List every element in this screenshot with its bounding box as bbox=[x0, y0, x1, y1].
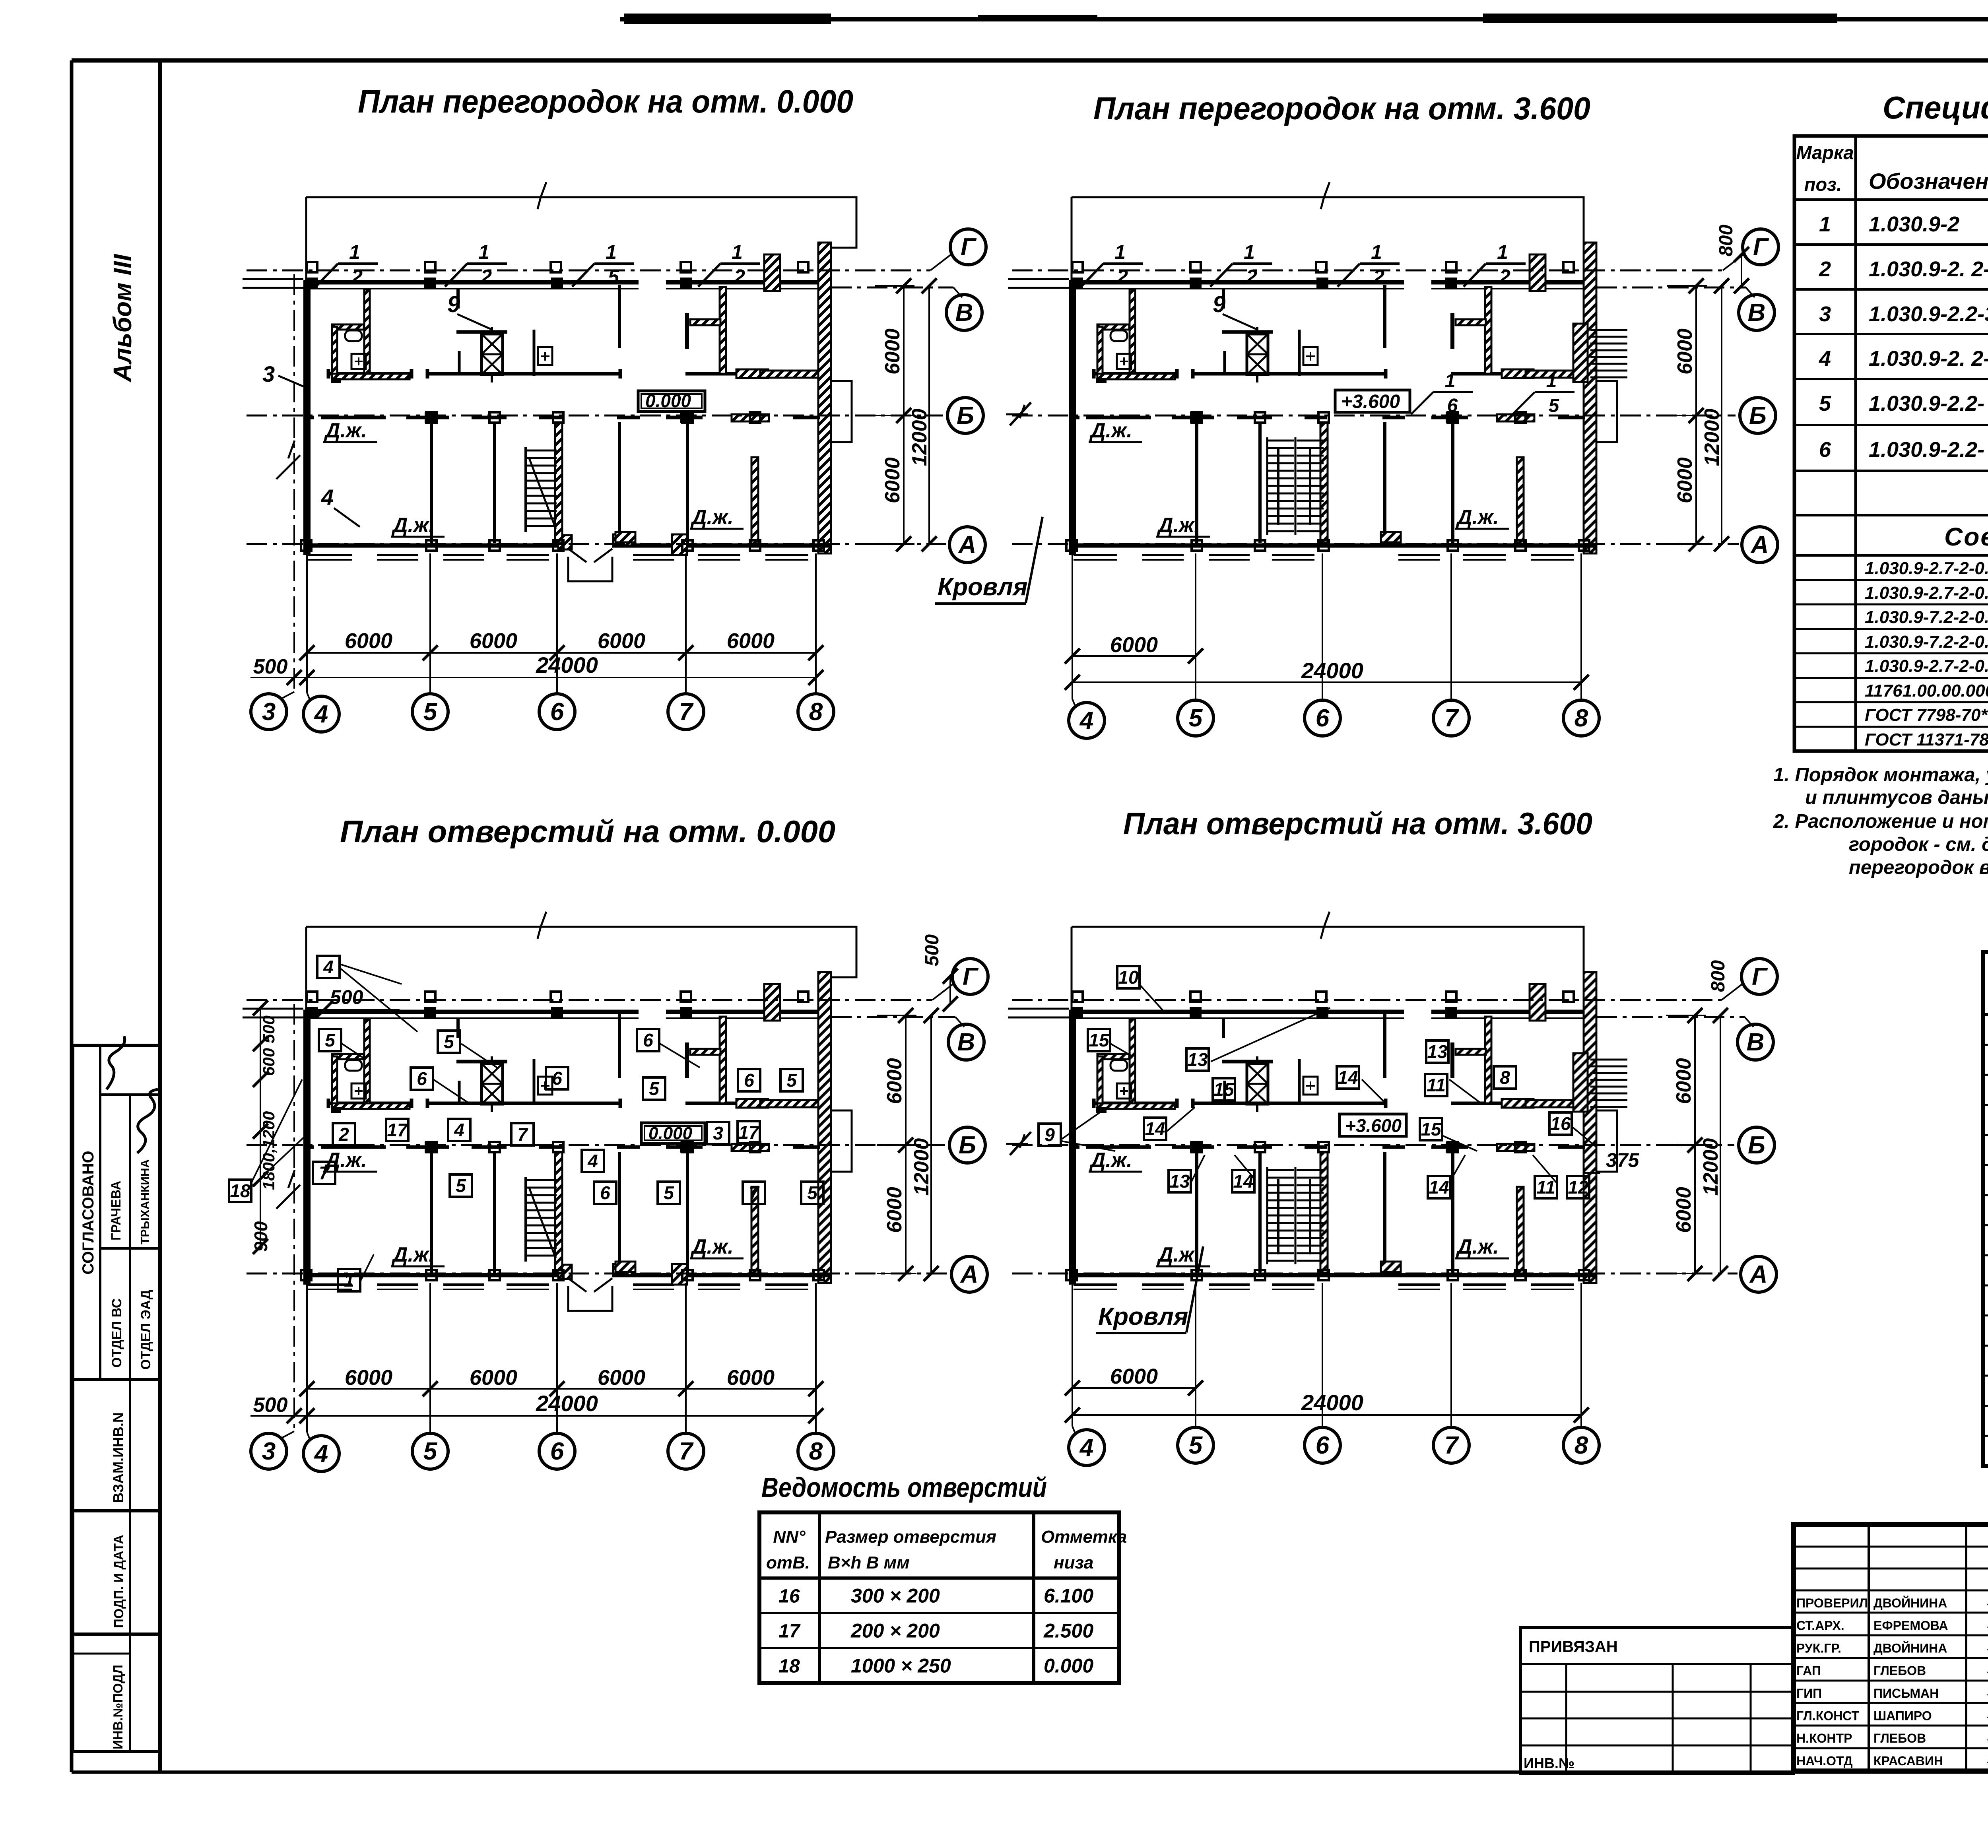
svg-text:А: А bbox=[1749, 1261, 1768, 1288]
svg-text:Д.ж.: Д.ж. bbox=[324, 419, 367, 442]
svg-text:Альбом III: Альбом III bbox=[108, 254, 137, 382]
svg-text:Ведомость отверстий: Ведомость отверстий bbox=[761, 1472, 1047, 1503]
svg-text:А: А bbox=[958, 531, 977, 559]
svg-text:ОТДЕЛ ВС: ОТДЕЛ ВС bbox=[109, 1299, 124, 1368]
plan p1 label 4 bbox=[321, 485, 360, 527]
svg-text:7: 7 bbox=[679, 698, 694, 726]
plan p2 corridor wall axis B(lower) bbox=[1069, 414, 1585, 421]
notes bbox=[1773, 764, 1988, 878]
svg-text:В×h В мм: В×h В мм bbox=[828, 1553, 910, 1572]
plan p2 upper right stair bbox=[1573, 324, 1627, 382]
svg-text:КРАСАВИН: КРАСАВИН bbox=[1873, 1754, 1943, 1768]
svg-text:3: 3 bbox=[262, 698, 276, 726]
svg-text:11761.00.00.000: 11761.00.00.000 bbox=[1865, 681, 1988, 701]
svg-text:4: 4 bbox=[323, 957, 334, 977]
svg-text:Размер отверстия: Размер отверстия bbox=[825, 1527, 996, 1547]
svg-text:ДВОЙНИНА: ДВОЙНИНА bbox=[1873, 1641, 1947, 1655]
title block bbox=[1794, 1524, 1988, 1771]
svg-text:1: 1 bbox=[344, 1270, 354, 1291]
svg-text:6000: 6000 bbox=[345, 629, 392, 653]
svg-text:1000 × 250: 1000 × 250 bbox=[851, 1655, 951, 1677]
svg-text:6000: 6000 bbox=[881, 457, 904, 503]
svg-text:3: 3 bbox=[262, 1438, 276, 1465]
plan p4 pylon bbox=[1530, 984, 1545, 1021]
svg-text:1.030.9-2.2- 3.0: 1.030.9-2.2- 3.0 bbox=[1869, 392, 1988, 415]
privyazan box bbox=[1520, 1627, 1794, 1773]
svg-text:поз.: поз. bbox=[1804, 174, 1842, 195]
svg-text:отВ.: отВ. bbox=[766, 1553, 810, 1572]
plan p3 canopy outline bbox=[306, 912, 856, 977]
svg-text:5: 5 bbox=[1189, 1432, 1203, 1459]
svg-text:1: 1 bbox=[1114, 241, 1126, 263]
svg-text:4: 4 bbox=[314, 1440, 328, 1468]
svg-text:1.030.9-2.7-2-0.21.0: 1.030.9-2.7-2-0.21.0 bbox=[1865, 656, 1988, 676]
svg-text:5: 5 bbox=[444, 1031, 454, 1052]
plan p2 upper partitions bbox=[1299, 285, 1491, 376]
svg-text:План отверстий на отм. 3.60: План отверстий на отм. 3.600 bbox=[1123, 806, 1592, 841]
svg-text:План отверстий на отм. 0.00: План отверстий на отм. 0.000 bbox=[340, 814, 835, 849]
title plan openings 0.000 bbox=[340, 814, 835, 849]
svg-text:14: 14 bbox=[1145, 1118, 1165, 1139]
svg-text:17: 17 bbox=[738, 1122, 760, 1143]
plan p4 upper right stair bbox=[1573, 1053, 1627, 1112]
svg-text:ВЗАМ.ИНВ.N: ВЗАМ.ИНВ.N bbox=[110, 1412, 126, 1503]
svg-text:6.100: 6.100 bbox=[1044, 1585, 1093, 1607]
svg-text:500: 500 bbox=[922, 934, 943, 966]
sidebar album label bbox=[108, 254, 137, 382]
plan p1 corridor wall axis B(lower) bbox=[303, 414, 820, 421]
plan p1 right dimension lines bbox=[875, 278, 937, 551]
plan p3 axis B bbox=[247, 1127, 985, 1163]
svg-text:375: 375 bbox=[1606, 1149, 1640, 1171]
svg-text:Д.ж.: Д.ж. bbox=[324, 1149, 367, 1172]
svg-text:ГАП: ГАП bbox=[1796, 1664, 1821, 1678]
plan p1 D.zh. labels bbox=[323, 419, 744, 537]
plan p4 axis G bbox=[1012, 959, 1777, 1002]
plan p2 right wall bbox=[1584, 243, 1596, 553]
svg-text:6000: 6000 bbox=[883, 1058, 906, 1104]
svg-text:17: 17 bbox=[779, 1621, 801, 1642]
plan p3 right dimension lines bbox=[877, 1008, 939, 1281]
svg-text:Обозначение: Обозначение bbox=[1869, 169, 1988, 194]
plan p3 axis V bbox=[831, 1017, 984, 1060]
plan p2 axis A bbox=[1012, 527, 1778, 563]
plan p2 elevator shaft bbox=[1222, 289, 1273, 382]
svg-text:5: 5 bbox=[1819, 392, 1831, 415]
svg-text:НАЧ.ОТД: НАЧ.ОТД bbox=[1796, 1754, 1853, 1768]
svg-text:Д.ж.: Д.ж. bbox=[1456, 1235, 1499, 1258]
plan p4 axis B bbox=[1012, 1127, 1774, 1163]
svg-text:3: 3 bbox=[713, 1123, 723, 1143]
plan p4 left wall bbox=[1006, 927, 1076, 1285]
svg-text:8: 8 bbox=[1574, 705, 1588, 732]
svg-text:Н.КОНТР: Н.КОНТР bbox=[1796, 1731, 1852, 1745]
svg-text:низа: низа bbox=[1054, 1553, 1093, 1572]
svg-text:24000: 24000 bbox=[1301, 1390, 1363, 1415]
plan p2 bottom wall axis A bbox=[1069, 545, 1596, 560]
svg-text:15: 15 bbox=[1421, 1119, 1442, 1139]
svg-text:5: 5 bbox=[325, 1030, 336, 1050]
plan p3 right wall bbox=[818, 972, 831, 1283]
svg-text:9: 9 bbox=[1213, 291, 1225, 317]
svg-text:1.030.9-2: 1.030.9-2 bbox=[1869, 212, 1959, 236]
plan p3 column circles bbox=[251, 1433, 834, 1471]
sidebar ВЗАМ.ИНВ. box bbox=[73, 1380, 160, 1511]
svg-text:17: 17 bbox=[387, 1120, 408, 1140]
svg-text:Б: Б bbox=[1749, 402, 1767, 429]
svg-text:5: 5 bbox=[608, 266, 619, 288]
svg-text:4: 4 bbox=[1079, 1434, 1093, 1462]
svg-text:5: 5 bbox=[649, 1078, 660, 1099]
plan p2 axis G bbox=[1012, 229, 1778, 272]
svg-text:16: 16 bbox=[779, 1586, 800, 1607]
plan p1 axis V bbox=[831, 287, 982, 330]
svg-text:1.030.9-7.2-2-0.22.0-05: 1.030.9-7.2-2-0.22.0-05 bbox=[1865, 608, 1988, 627]
plan p2 bottom dimension lines bbox=[1065, 553, 1589, 707]
plan p4 top wall axis B bbox=[1069, 1012, 1585, 1018]
plan p4 stair bbox=[1267, 1167, 1324, 1264]
svg-text:ГИП: ГИП bbox=[1796, 1686, 1822, 1700]
plan p3 bottom dimension lines bbox=[250, 1004, 823, 1440]
svg-text:ГРАЧЕВА: ГРАЧЕВА bbox=[109, 1181, 123, 1240]
plan p4 right dimension lines bbox=[1666, 1008, 1728, 1281]
svg-text:12000: 12000 bbox=[1701, 409, 1724, 466]
svg-text:1: 1 bbox=[606, 241, 617, 263]
plan p1 elevator shaft bbox=[456, 289, 507, 382]
plan p3 top wall axis B bbox=[303, 1012, 820, 1018]
svg-text:5: 5 bbox=[456, 1175, 466, 1196]
svg-text:800: 800 bbox=[1708, 960, 1729, 992]
plan p1 label 9 elevator bbox=[447, 291, 491, 329]
svg-text:ПОДП. И ДАТА: ПОДП. И ДАТА bbox=[111, 1535, 126, 1628]
svg-text:6000: 6000 bbox=[727, 629, 775, 653]
svg-text:ИНВ.№ПОДЛ: ИНВ.№ПОДЛ bbox=[111, 1665, 125, 1749]
svg-text:1.030.9-7.2-2-0.35.0-01: 1.030.9-7.2-2-0.35.0-01 bbox=[1865, 632, 1988, 652]
plan p3 level mark 0.000 bbox=[641, 1123, 705, 1143]
svg-text:13: 13 bbox=[1187, 1049, 1208, 1070]
svg-text:2: 2 bbox=[1246, 266, 1257, 288]
svg-text:14: 14 bbox=[1338, 1067, 1358, 1088]
plan p3 left wall bbox=[243, 927, 311, 1285]
svg-text:12: 12 bbox=[1568, 1177, 1588, 1198]
svg-text:9: 9 bbox=[1044, 1124, 1055, 1145]
plan p3 wall squares bbox=[306, 1007, 692, 1153]
vedomost otverstiy table small bbox=[759, 1472, 1127, 1683]
svg-text:1.030.9-2.2-3.0: 1.030.9-2.2-3.0 bbox=[1869, 302, 1988, 326]
svg-text:24000: 24000 bbox=[536, 652, 598, 677]
plan p3 D.zh. labels bbox=[323, 1149, 744, 1266]
plan p4 bottom wall axis A bbox=[1069, 1275, 1596, 1289]
svg-text:12000: 12000 bbox=[908, 409, 931, 466]
plan p1 left wall bbox=[243, 197, 311, 555]
svg-text:8: 8 bbox=[809, 1438, 823, 1465]
plan p2 lower partitions bbox=[1066, 412, 1589, 551]
plan p4 opening marks bbox=[1039, 966, 1596, 1198]
plan p1 right side porch bbox=[832, 381, 852, 442]
svg-text:4: 4 bbox=[1819, 347, 1831, 371]
plan p3 lower partitions bbox=[301, 1142, 824, 1280]
svg-text:ГОСТ 11371-78: ГОСТ 11371-78 bbox=[1865, 730, 1988, 749]
plan p1 lower partitions bbox=[301, 412, 824, 551]
svg-text:Д.ж.: Д.ж. bbox=[391, 1243, 435, 1266]
title specification bbox=[1883, 90, 1988, 125]
plan p1 wall squares bbox=[306, 278, 692, 423]
svg-text:800: 800 bbox=[1716, 225, 1737, 256]
svg-text:6: 6 bbox=[1447, 395, 1458, 416]
plan p4 right wall bbox=[1584, 972, 1596, 1283]
svg-text:6000: 6000 bbox=[883, 1187, 906, 1233]
svg-text:13: 13 bbox=[1427, 1041, 1448, 1062]
svg-text:2: 2 bbox=[338, 1124, 349, 1145]
svg-text:6: 6 bbox=[550, 1438, 564, 1465]
svg-text:Д.ж.: Д.ж. bbox=[1456, 506, 1499, 529]
svg-text:5: 5 bbox=[807, 1182, 818, 1203]
plan p1 bathroom bbox=[331, 289, 410, 383]
scan edge streak bbox=[620, 14, 1988, 24]
svg-text:Б: Б bbox=[959, 1132, 976, 1159]
svg-text:перегородок в створе колонн: перегородок в створе колонн каркаса здан… bbox=[1849, 857, 1988, 878]
svg-text:ИНВ.№: ИНВ.№ bbox=[1524, 1755, 1574, 1771]
plan p2 wall squares bbox=[1071, 278, 1457, 423]
plan p4 axis V bbox=[1596, 1017, 1773, 1060]
plan p3 entrance porch bbox=[558, 1264, 687, 1311]
title plan partitions 3.600 bbox=[1093, 91, 1590, 126]
svg-text:11: 11 bbox=[1427, 1075, 1446, 1095]
svg-text:1: 1 bbox=[478, 241, 489, 263]
svg-text:В: В bbox=[1747, 1029, 1765, 1056]
svg-text:РУК.ГР.: РУК.ГР. bbox=[1796, 1641, 1841, 1655]
plan p2 fractions 1/6 1/5 bbox=[1411, 371, 1574, 416]
plan p2 axis V bbox=[1596, 287, 1774, 330]
plan p4 dim 800 bbox=[1708, 960, 1729, 992]
svg-text:План перегородок на отм. 0.: План перегородок на отм. 0.000 bbox=[358, 83, 853, 120]
svg-text:6000: 6000 bbox=[598, 629, 645, 653]
plan p3 bottom wall axis A bbox=[303, 1275, 831, 1289]
plan p1 axis A bbox=[247, 527, 985, 563]
svg-text:7: 7 bbox=[1444, 705, 1459, 732]
plan p3 axis A bbox=[247, 1256, 987, 1292]
svg-text:6000: 6000 bbox=[881, 328, 904, 375]
plan p1 canopy outline bbox=[306, 182, 856, 248]
svg-text:5: 5 bbox=[664, 1182, 674, 1203]
plan p3 dim 500 top right bbox=[922, 934, 958, 1011]
svg-text:2. Расположение и номера мон: 2. Расположение и номера монтажных узлов… bbox=[1773, 811, 1988, 832]
svg-text:В: В bbox=[957, 1029, 975, 1056]
svg-text:6: 6 bbox=[1316, 1432, 1330, 1459]
svg-text:Марка: Марка bbox=[1796, 142, 1854, 163]
svg-text:0.000: 0.000 bbox=[645, 390, 691, 411]
plan p2 axis B bbox=[1012, 398, 1776, 433]
svg-text:500: 500 bbox=[253, 655, 288, 678]
plan p3 right side porch bbox=[832, 1110, 852, 1172]
svg-text:1.030.9-2.2- 4.0: 1.030.9-2.2- 4.0 bbox=[1869, 438, 1988, 462]
plan p1 interior wall upper rooms bbox=[328, 369, 818, 379]
svg-text:Кровля: Кровля bbox=[1098, 1303, 1188, 1330]
title plan partitions 0.000 bbox=[358, 83, 853, 120]
plan p1 level mark 0.000 bbox=[638, 390, 705, 412]
plan p3 elevator shaft bbox=[456, 1018, 507, 1112]
svg-text:8: 8 bbox=[809, 698, 823, 726]
svg-text:В: В bbox=[1748, 299, 1766, 326]
svg-text:1: 1 bbox=[1244, 241, 1255, 263]
plan p1 axis B bbox=[247, 398, 983, 433]
svg-text:2: 2 bbox=[1373, 266, 1384, 288]
svg-text:6000: 6000 bbox=[470, 1366, 517, 1390]
svg-text:6: 6 bbox=[744, 1070, 754, 1091]
svg-text:Г: Г bbox=[1752, 963, 1768, 990]
plan p4 bottom dimension lines bbox=[1065, 1283, 1589, 1434]
plan p1 entrance porch bbox=[558, 534, 687, 581]
plan p4 bathroom bbox=[1096, 1019, 1175, 1113]
svg-text:В: В bbox=[955, 299, 973, 326]
title plan openings 3.600 bbox=[1123, 806, 1592, 841]
plan p3 opening marks bbox=[229, 956, 823, 1291]
plan p2 top wall axis B bbox=[1069, 282, 1585, 289]
plan p1 stair bbox=[526, 447, 557, 532]
svg-text:1: 1 bbox=[1445, 371, 1456, 392]
plan p2 column circles bbox=[1069, 700, 1599, 738]
plan p3 corridor wall axis B(lower) bbox=[303, 1144, 820, 1151]
svg-text:9: 9 bbox=[447, 291, 460, 317]
svg-text:1: 1 bbox=[1819, 212, 1831, 236]
plan p4 interior wall upper rooms bbox=[1094, 1099, 1584, 1108]
plan p2 pylon bbox=[1530, 254, 1545, 291]
svg-text:ТРЫХАНКИНА: ТРЫХАНКИНА bbox=[139, 1159, 152, 1244]
svg-text:500: 500 bbox=[253, 1394, 288, 1417]
svg-text:6000: 6000 bbox=[470, 629, 517, 653]
sidebar ИНВ.№ПОДЛ box bbox=[73, 1634, 160, 1751]
svg-text:6: 6 bbox=[552, 1068, 562, 1089]
svg-text:18: 18 bbox=[230, 1180, 250, 1201]
svg-text:СТ.АРХ.: СТ.АРХ. bbox=[1796, 1619, 1844, 1633]
plan p3 pylon bbox=[764, 984, 780, 1021]
svg-text:А: А bbox=[1750, 531, 1769, 559]
sidebar approval block bbox=[73, 1036, 160, 1380]
svg-text:16: 16 bbox=[1550, 1113, 1571, 1134]
plan p1 bottom wall axis A bbox=[303, 545, 831, 560]
svg-text:11: 11 bbox=[1536, 1177, 1555, 1198]
svg-text:6000: 6000 bbox=[1673, 457, 1697, 503]
svg-text:14: 14 bbox=[1429, 1177, 1449, 1198]
svg-text:2: 2 bbox=[1819, 257, 1831, 281]
svg-text:ПРОВЕРИЛ: ПРОВЕРИЛ bbox=[1796, 1596, 1868, 1610]
svg-text:1.030.9-2.7-2-0.35.0-04: 1.030.9-2.7-2-0.35.0-04 bbox=[1865, 583, 1988, 603]
svg-text:1: 1 bbox=[732, 241, 743, 263]
svg-text:7: 7 bbox=[319, 1163, 330, 1183]
plan p1 pylon bbox=[764, 254, 780, 291]
svg-text:15: 15 bbox=[1213, 1079, 1235, 1100]
svg-text:6: 6 bbox=[1316, 705, 1330, 732]
svg-text:ГОСТ 7798-70*: ГОСТ 7798-70* bbox=[1865, 705, 1988, 725]
svg-text:План перегородок на отм. 3.: План перегородок на отм. 3.600 bbox=[1093, 91, 1590, 126]
svg-text:ГЛЕБОВ: ГЛЕБОВ bbox=[1873, 1664, 1926, 1678]
svg-text:4: 4 bbox=[1079, 707, 1093, 734]
svg-text:5: 5 bbox=[1549, 395, 1560, 416]
plan p1 right wall bbox=[818, 243, 831, 553]
svg-text:6000: 6000 bbox=[1673, 328, 1697, 375]
svg-text:Д.ж.: Д.ж. bbox=[1157, 514, 1200, 537]
plan p1 panel mark fractions bbox=[316, 241, 760, 288]
svg-text:4: 4 bbox=[454, 1120, 464, 1140]
svg-text:200 × 200: 200 × 200 bbox=[850, 1620, 940, 1642]
svg-text:12000: 12000 bbox=[910, 1138, 933, 1196]
plan p2 level mark +3.600 bbox=[1335, 390, 1410, 412]
svg-text:18: 18 bbox=[779, 1656, 800, 1677]
plan p3 axis G bbox=[247, 959, 988, 1002]
plan p4 upper partitions bbox=[1299, 1014, 1491, 1105]
svg-text:8: 8 bbox=[1500, 1067, 1510, 1088]
specification table bbox=[1794, 136, 1988, 751]
svg-text:10: 10 bbox=[1118, 967, 1139, 988]
svg-text:7: 7 bbox=[517, 1124, 528, 1145]
plan p4 corridor wall axis B(lower) bbox=[1069, 1144, 1585, 1151]
svg-text:7: 7 bbox=[749, 1182, 760, 1203]
svg-text:300 × 200: 300 × 200 bbox=[851, 1585, 940, 1607]
plan p1 top wall axis B bbox=[303, 282, 820, 289]
svg-text:ЕФРЕМОВА: ЕФРЕМОВА bbox=[1873, 1619, 1948, 1633]
sidebar ПОДП. И ДАТА box bbox=[73, 1511, 160, 1634]
svg-text:6: 6 bbox=[550, 698, 564, 726]
svg-text:Отметка: Отметка bbox=[1041, 1527, 1127, 1547]
svg-text:Д.ж.: Д.ж. bbox=[690, 1235, 734, 1258]
vedomost otverstiy table right bbox=[1983, 910, 1988, 1466]
svg-text:Д.ж.: Д.ж. bbox=[391, 514, 435, 537]
svg-text:600 500: 600 500 bbox=[259, 1015, 278, 1076]
svg-text:Д.ж.: Д.ж. bbox=[1089, 1149, 1132, 1172]
svg-text:Кровля: Кровля bbox=[938, 573, 1027, 601]
plan p2 right dimension lines bbox=[1667, 278, 1729, 551]
svg-text:ШАПИРО: ШАПИРО bbox=[1873, 1709, 1932, 1723]
svg-text:1: 1 bbox=[1546, 371, 1557, 392]
plan p1 bottom dimension lines bbox=[250, 274, 823, 701]
svg-text:0.000: 0.000 bbox=[648, 1124, 693, 1143]
plan p4 level mark +3.600 bbox=[1340, 1114, 1406, 1136]
svg-text:2: 2 bbox=[1116, 266, 1128, 288]
svg-text:Г: Г bbox=[963, 963, 979, 990]
svg-text:500: 500 bbox=[330, 986, 363, 1008]
plan p3 bathroom bbox=[331, 1019, 410, 1113]
svg-text:1: 1 bbox=[349, 241, 360, 263]
plan p2 label 9 elevator bbox=[1213, 291, 1256, 329]
svg-text:+3.600: +3.600 bbox=[1341, 391, 1400, 412]
svg-text:1.030.9-2. 2-1.0: 1.030.9-2. 2-1.0 bbox=[1869, 347, 1988, 371]
svg-text:6000: 6000 bbox=[1110, 1365, 1158, 1388]
svg-text:городок - см. документ 1.030: городок - см. документ 1.030.9- 2.0- 42 … bbox=[1849, 834, 1988, 855]
svg-text:7: 7 bbox=[679, 1438, 694, 1465]
svg-text:6000: 6000 bbox=[345, 1366, 392, 1390]
plan p1 upper partitions bbox=[534, 285, 726, 376]
svg-text:А: А bbox=[960, 1261, 978, 1288]
svg-text:и плинтусов даны в серии: и плинтусов даны в серии 1.030.9-2, Выпу… bbox=[1805, 787, 1988, 808]
plan p3 left dims bbox=[250, 986, 400, 1254]
svg-text:ОТДЕЛ ЭАД: ОТДЕЛ ЭАД bbox=[138, 1290, 153, 1370]
svg-text:Д.ж.: Д.ж. bbox=[1089, 419, 1132, 442]
svg-text:6: 6 bbox=[417, 1068, 427, 1089]
svg-text:1. Порядок монтажа, узлы креп: 1. Порядок монтажа, узлы крепления перег… bbox=[1773, 764, 1988, 786]
plan p4 column circles bbox=[1069, 1427, 1599, 1466]
krovlya label bottom bbox=[1096, 1246, 1203, 1333]
plan p3 stair bbox=[526, 1177, 557, 1262]
svg-text:Спецификация сборных перегор: Спецификация сборных перегородок bbox=[1883, 90, 1988, 125]
svg-text:6000: 6000 bbox=[1110, 633, 1158, 657]
svg-text:2: 2 bbox=[1499, 266, 1510, 288]
plan p2 dim 800 bbox=[1716, 225, 1749, 293]
svg-text:6000: 6000 bbox=[1672, 1058, 1695, 1104]
svg-text:6: 6 bbox=[1819, 438, 1831, 462]
svg-text:СОГЛАСОВАНО: СОГЛАСОВАНО bbox=[80, 1151, 97, 1274]
svg-text:7: 7 bbox=[1444, 1432, 1459, 1459]
plan p2 interior wall upper rooms bbox=[1094, 369, 1584, 379]
